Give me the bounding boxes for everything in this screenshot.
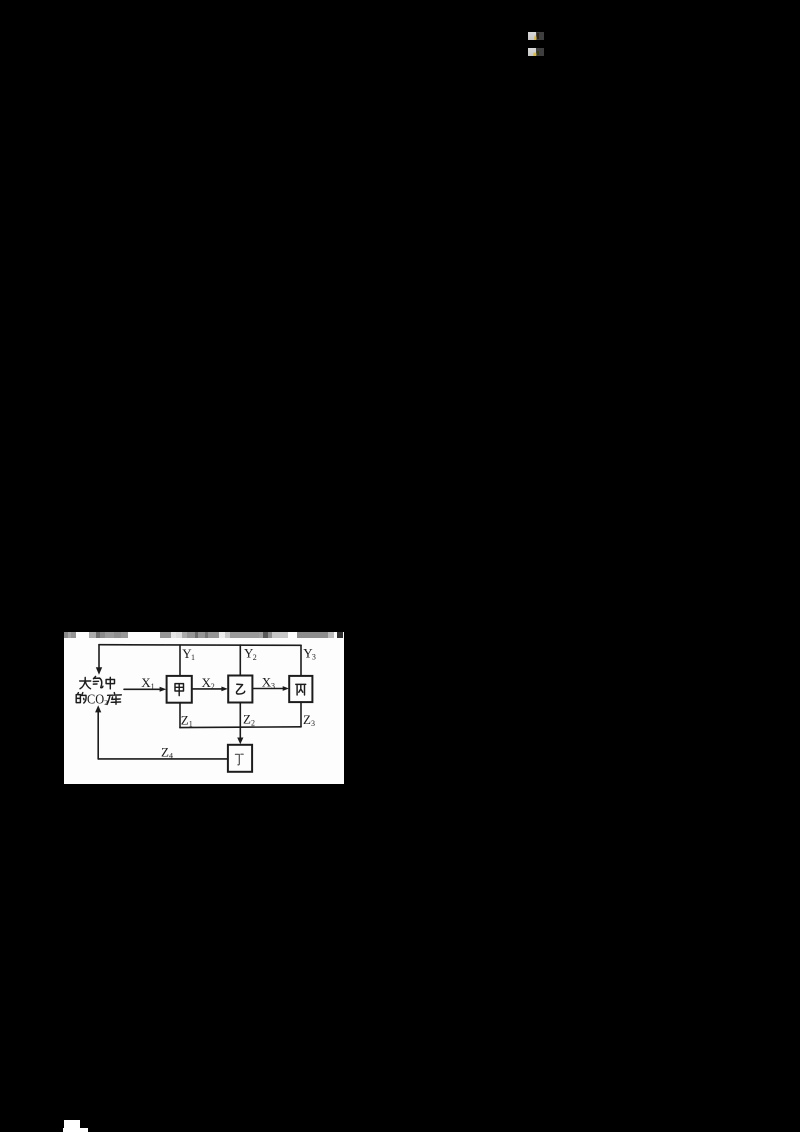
glyph jia in box: [175, 684, 184, 696]
wire Y2 vertical: [239, 645, 241, 675]
wire Z4: [98, 758, 228, 760]
svg-text:2: 2: [253, 653, 257, 662]
diagram SVG: [64, 632, 344, 784]
arrow X1: [124, 688, 160, 690]
svg-text:1: 1: [151, 682, 155, 691]
glyph de (of CO2 ku): [76, 693, 86, 703]
box bing: [289, 676, 312, 702]
wire Z horizontal collector: [180, 726, 301, 729]
svg-text:1: 1: [191, 653, 195, 662]
svg-text:CO: CO: [87, 693, 104, 708]
glyph qi: [93, 676, 103, 687]
box jia: [167, 676, 192, 703]
glyph yi in box: [236, 684, 244, 694]
glyph ding in box (faint): [235, 754, 243, 765]
svg-text:3: 3: [311, 719, 315, 728]
wire Z1: [179, 703, 181, 728]
arrow X3: [253, 688, 283, 690]
wire: top feedback line: [99, 644, 301, 647]
wire Z3: [300, 702, 302, 727]
svg-text:Z: Z: [161, 744, 169, 759]
svg-text:Z: Z: [243, 712, 251, 727]
wire: left vertical with up arrow to CO2 pool: [97, 712, 99, 759]
glyph da (of da-qi-zhong): [80, 678, 91, 689]
glyph bing in box: [296, 684, 306, 695]
hand-drawn CJK glyphs: [76, 676, 306, 764]
svg-text:Z: Z: [181, 712, 189, 727]
svg-text:3: 3: [312, 653, 316, 662]
glyph zhong: [106, 677, 114, 689]
bottom-left white cut-off shape: [64, 1120, 80, 1128]
grey band of cut-off scanned text at top of white region: [64, 632, 344, 639]
svg-text:1: 1: [189, 720, 193, 729]
svg-text:3: 3: [271, 682, 275, 691]
box ding: [228, 745, 252, 772]
wire Y1 vertical: [179, 645, 181, 676]
wire: left vertical with down arrow into CO2 pool: [98, 645, 100, 669]
glyph ku: [107, 693, 121, 705]
white scanned diagram region: [64, 632, 344, 784]
svg-text:4: 4: [169, 752, 173, 761]
labels X/Y/Z: [87, 646, 316, 761]
top-right thumbnail icon 1: [528, 32, 544, 41]
svg-text:2: 2: [251, 719, 255, 728]
top-right thumbnail icon 2: [528, 48, 544, 56]
arrow Z2 down into ding: [239, 703, 241, 739]
wire Y3 vertical: [300, 645, 302, 676]
box yi: [228, 676, 252, 703]
arrow X2: [192, 688, 222, 690]
svg-text:Z: Z: [303, 712, 311, 727]
svg-text:2: 2: [211, 682, 215, 691]
